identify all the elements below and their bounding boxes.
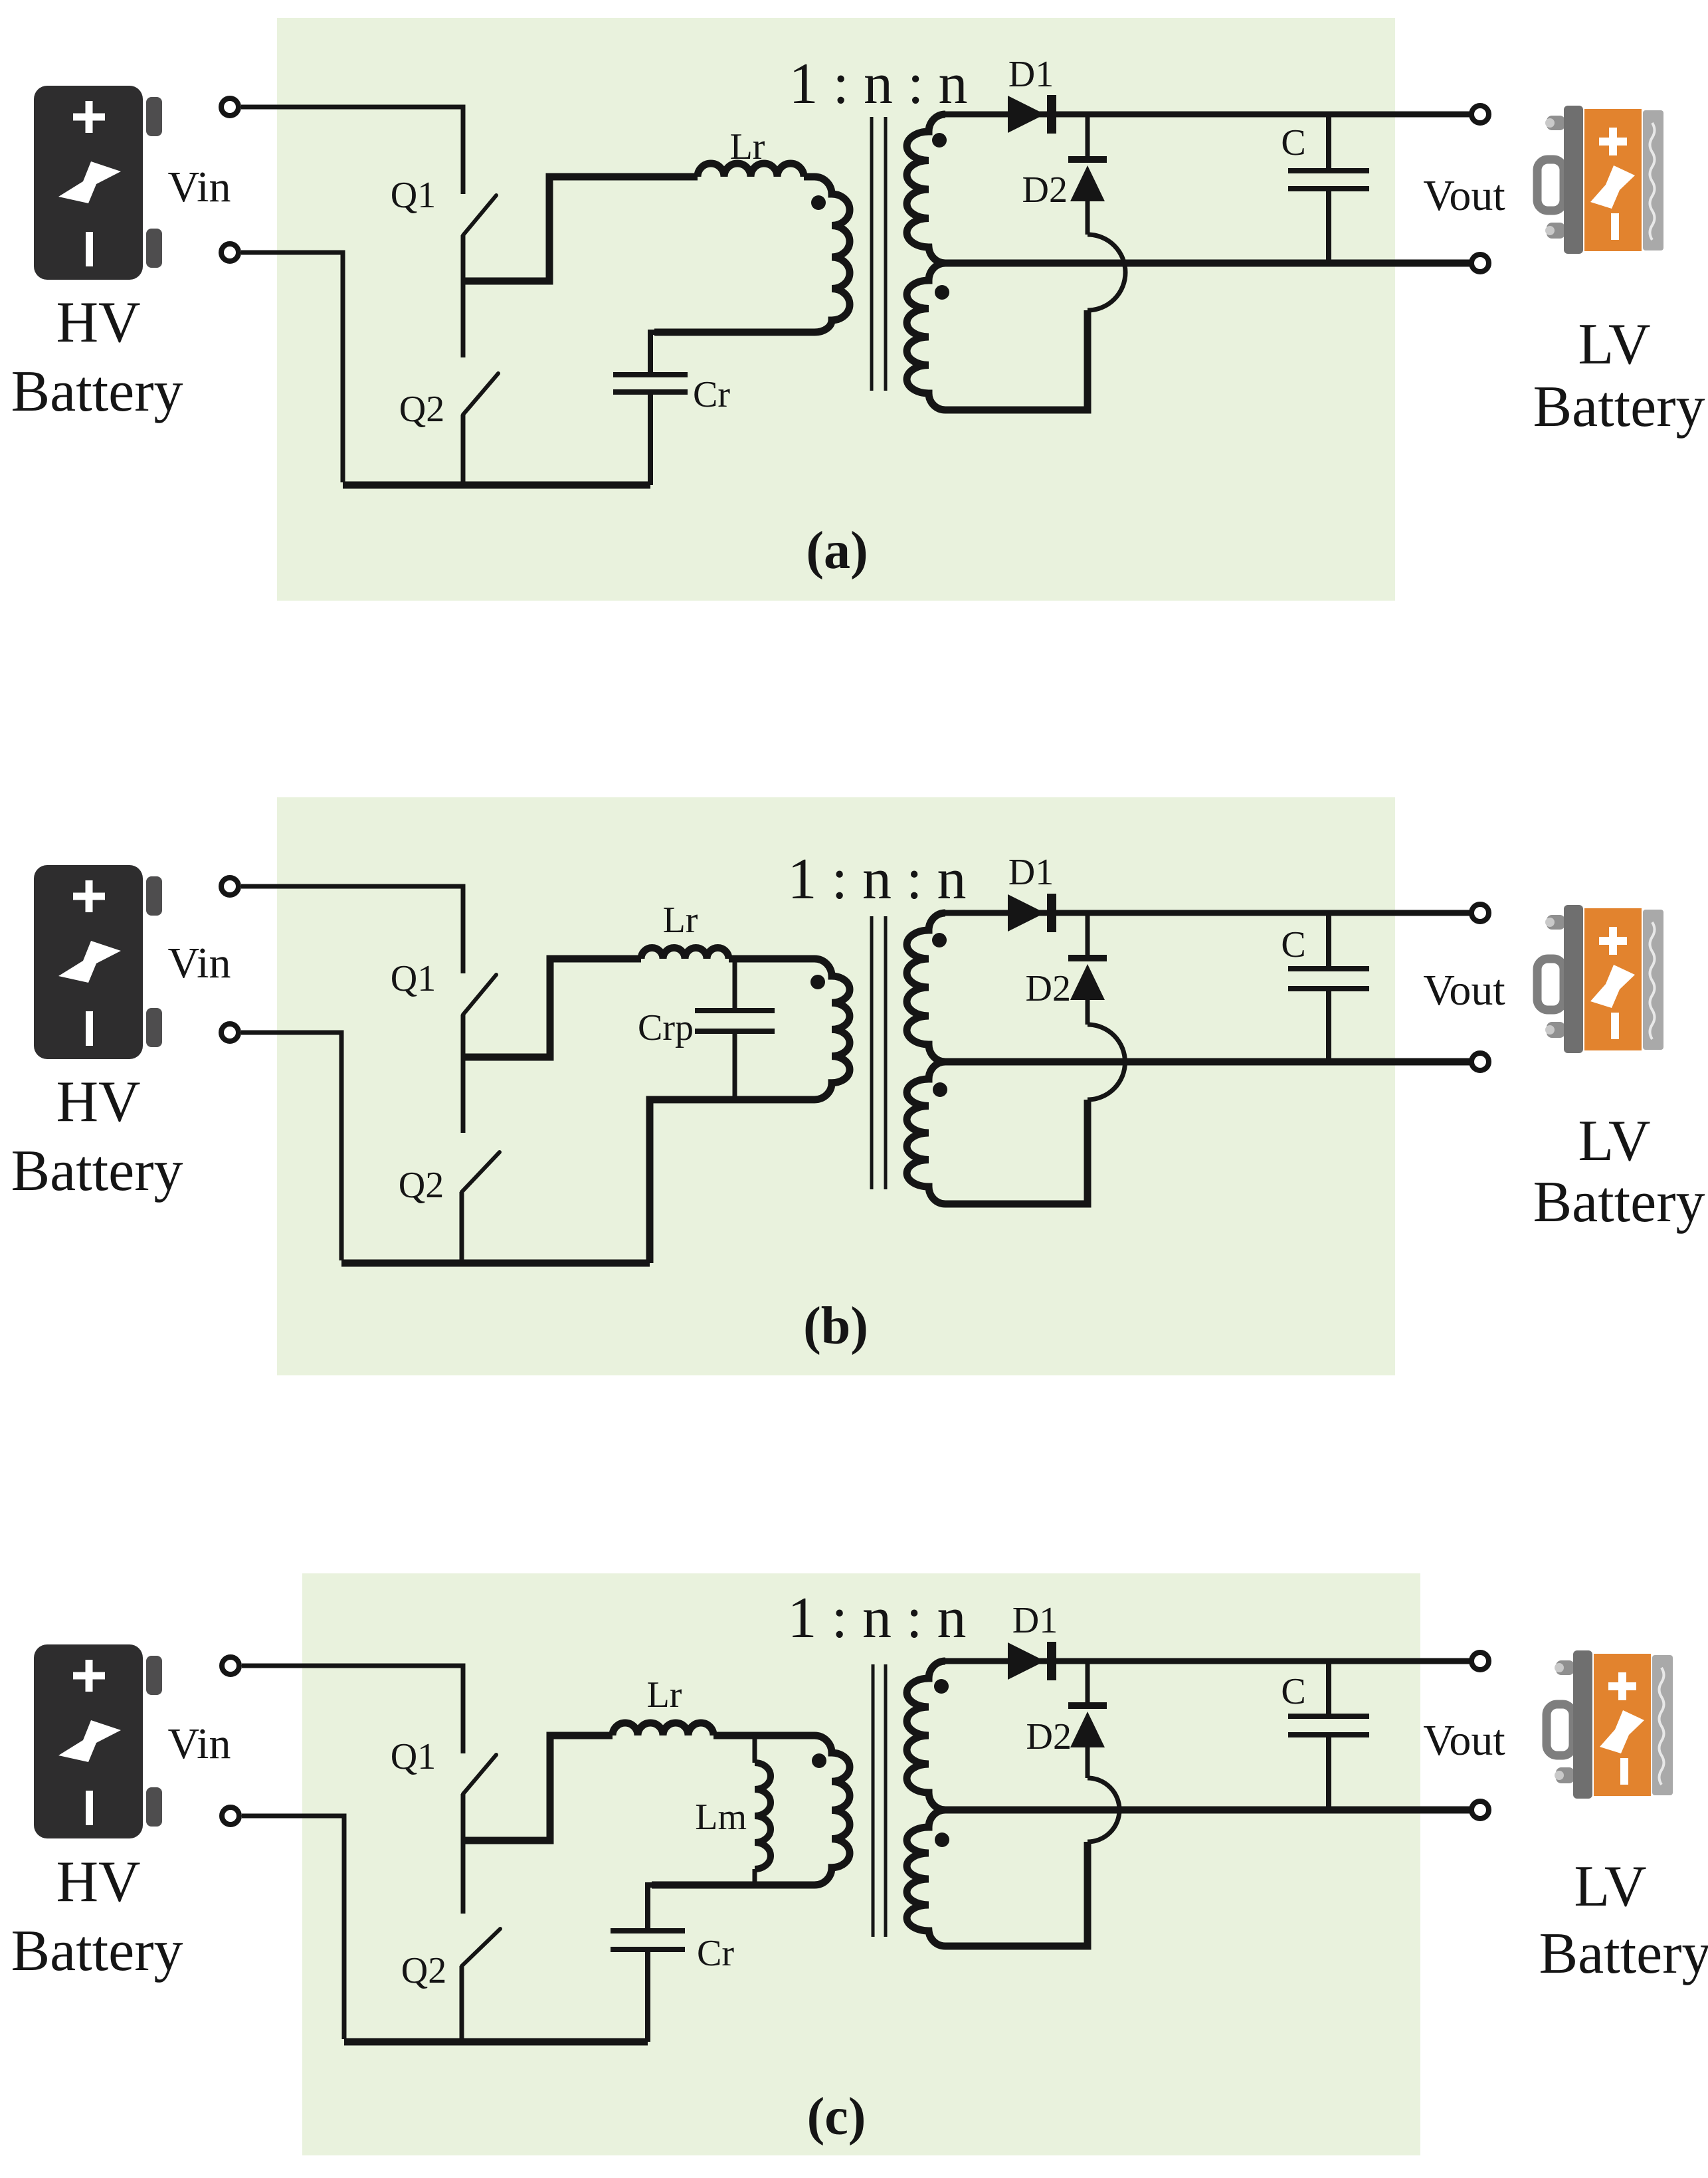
svg-text:LV: LV bbox=[1578, 1109, 1650, 1173]
wire half-bridge midpoint (b) bbox=[463, 959, 641, 1057]
svg-text:HV: HV bbox=[56, 1850, 140, 1914]
diode D1 (b) bbox=[1008, 894, 1045, 932]
svg-text:Battery: Battery bbox=[11, 359, 183, 424]
svg-text:Vin: Vin bbox=[167, 939, 231, 987]
diode D2 (a) bbox=[1068, 156, 1107, 163]
wire output top rail (b) bbox=[943, 910, 1480, 916]
svg-text:1 : n : n: 1 : n : n bbox=[789, 52, 968, 116]
wire D2 branch (b) bbox=[1086, 913, 1090, 955]
svg-text:Vout: Vout bbox=[1423, 966, 1505, 1015]
switch Q2 (b) bbox=[462, 1152, 500, 1192]
wire output top rail (c) bbox=[943, 1658, 1480, 1664]
input terminal bottom (c) bbox=[222, 1807, 239, 1825]
transformer core (c) bbox=[873, 1664, 886, 1937]
svg-text:(b): (b) bbox=[803, 1297, 868, 1355]
wire D2 to hop (a) bbox=[1086, 201, 1090, 235]
transformer secondary dot 2 (b) bbox=[933, 1082, 947, 1097]
transformer secondary dot 1 (c) bbox=[934, 1679, 949, 1694]
HV battery icon (a) bbox=[34, 86, 162, 280]
svg-text:D1: D1 bbox=[1008, 852, 1054, 893]
capacitor Cr (c) bbox=[611, 1931, 685, 1949]
wire primary bottom (b) bbox=[650, 1100, 738, 1263]
wire bottom rail (a) bbox=[343, 482, 650, 489]
inductor Lr (b) bbox=[641, 948, 729, 959]
svg-text:1 : n : n: 1 : n : n bbox=[788, 1586, 967, 1650]
wire secondary bottom (c) bbox=[945, 1842, 1088, 1946]
svg-text:Vin: Vin bbox=[167, 163, 231, 211]
svg-text:C: C bbox=[1281, 122, 1305, 163]
wire hop over center tap (b) bbox=[1088, 1025, 1125, 1100]
svg-text:Battery: Battery bbox=[1539, 1922, 1708, 1986]
transformer secondary dot 2 (c) bbox=[935, 1832, 949, 1847]
diode D2 (c) bbox=[1068, 1702, 1107, 1709]
transformer secondary winding 2 (a) bbox=[907, 263, 945, 410]
transformer secondary dot 1 (a) bbox=[932, 133, 947, 148]
svg-text:Q1: Q1 bbox=[391, 1736, 436, 1777]
wire input bottom (c) bbox=[242, 1816, 344, 2039]
transformer secondary winding 1 (a) bbox=[907, 114, 945, 263]
wire input top (c) bbox=[242, 1666, 463, 1753]
svg-text:(a): (a) bbox=[806, 522, 868, 580]
diode D1 (a) bbox=[1008, 96, 1045, 133]
diode D1 (c) bbox=[1008, 1642, 1045, 1680]
inductor Lm (c) bbox=[753, 1735, 757, 1763]
switch Q2 (c) bbox=[462, 1929, 500, 1966]
wire input top (b) bbox=[241, 886, 463, 973]
inductor Lr (c) bbox=[613, 1723, 713, 1735]
svg-text:Q1: Q1 bbox=[391, 175, 436, 216]
wire input bottom (b) bbox=[241, 1033, 341, 1260]
switch Q1 (b) bbox=[463, 975, 496, 1015]
wire D2 to hop (c) bbox=[1086, 1747, 1090, 1778]
capacitor C (c) bbox=[1326, 1661, 1331, 1714]
switch Q1 (a) bbox=[463, 195, 496, 235]
label HV Battery (b) bbox=[11, 1070, 183, 1203]
output terminal top (b) bbox=[1471, 904, 1489, 922]
svg-text:D1: D1 bbox=[1008, 54, 1054, 95]
wire output top rail (a) bbox=[943, 112, 1480, 118]
wire half-bridge midpoint (a) bbox=[463, 177, 698, 281]
wire D2 to hop (b) bbox=[1086, 1000, 1090, 1025]
label LV Battery (b) bbox=[1533, 1109, 1705, 1235]
svg-text:D2: D2 bbox=[1026, 1716, 1072, 1757]
capacitor C (b) bbox=[1326, 913, 1331, 966]
wire bottom rail (b) bbox=[341, 1260, 650, 1267]
svg-text:Vin: Vin bbox=[167, 1720, 231, 1768]
capacitor Cr (a) bbox=[613, 375, 688, 392]
svg-text:D2: D2 bbox=[1026, 968, 1071, 1009]
LV battery icon (a) bbox=[1537, 106, 1663, 254]
svg-text:Q1: Q1 bbox=[391, 958, 436, 999]
capacitor Crp (b) bbox=[695, 1011, 775, 1031]
svg-text:HV: HV bbox=[56, 1070, 140, 1134]
wire input bottom (a) bbox=[241, 252, 343, 482]
svg-text:Lm: Lm bbox=[695, 1797, 747, 1838]
input terminal bottom (a) bbox=[221, 244, 238, 261]
panel (c) background bbox=[302, 1573, 1420, 2155]
transformer core (b) bbox=[872, 916, 886, 1189]
transformer secondary winding 1 (c) bbox=[907, 1661, 945, 1810]
transformer secondary winding 2 (c) bbox=[907, 1810, 945, 1946]
wire bottom rail (c) bbox=[344, 2038, 648, 2046]
wire output bottom rail / center tap (c) bbox=[945, 1807, 1480, 1814]
svg-text:Cr: Cr bbox=[693, 374, 730, 415]
wire D2 branch (c) bbox=[1086, 1661, 1090, 1702]
svg-text:Battery: Battery bbox=[1533, 1170, 1705, 1235]
transformer primary winding (a) bbox=[654, 177, 850, 332]
wire output bottom rail / center tap (b) bbox=[945, 1058, 1480, 1066]
input terminal bottom (b) bbox=[221, 1024, 238, 1041]
svg-text:Cr: Cr bbox=[697, 1933, 734, 1974]
svg-text:HV: HV bbox=[56, 290, 140, 355]
svg-text:1 : n : n: 1 : n : n bbox=[788, 847, 967, 912]
svg-text:Lr: Lr bbox=[647, 1674, 682, 1716]
wire half-bridge midpoint (c) bbox=[463, 1735, 613, 1840]
input terminal top (c) bbox=[222, 1657, 239, 1674]
svg-text:Lr: Lr bbox=[730, 126, 765, 167]
capacitor C (a) bbox=[1326, 114, 1331, 168]
svg-text:Battery: Battery bbox=[1533, 375, 1705, 439]
svg-text:Vout: Vout bbox=[1423, 171, 1505, 220]
wire input top (a) bbox=[241, 107, 463, 194]
svg-text:C: C bbox=[1281, 924, 1305, 965]
transformer secondary winding 1 (b) bbox=[907, 913, 945, 1062]
LV battery icon (b) bbox=[1537, 905, 1663, 1053]
label LV Battery (a) bbox=[1533, 312, 1705, 439]
svg-text:(c): (c) bbox=[807, 2088, 866, 2146]
svg-text:Q2: Q2 bbox=[399, 389, 444, 430]
svg-text:D1: D1 bbox=[1012, 1600, 1058, 1641]
diode D2 (b) bbox=[1068, 955, 1107, 961]
LV battery icon (c) bbox=[1547, 1650, 1673, 1799]
panel (b) background bbox=[277, 797, 1395, 1375]
output terminal top (a) bbox=[1471, 106, 1489, 123]
panel (a) background bbox=[277, 18, 1395, 601]
transformer secondary winding 2 (b) bbox=[907, 1062, 945, 1204]
wire Cr top lead (c) bbox=[648, 1885, 652, 1928]
input terminal top (b) bbox=[221, 878, 238, 895]
svg-text:Battery: Battery bbox=[11, 1919, 183, 1983]
wire hop over center tap (a) bbox=[1088, 235, 1125, 310]
output terminal bottom (c) bbox=[1471, 1801, 1489, 1819]
transformer secondary dot 1 (b) bbox=[932, 933, 947, 947]
svg-text:Crp: Crp bbox=[638, 1007, 694, 1048]
wire hop over center tap (c) bbox=[1088, 1778, 1119, 1842]
wire Cr top lead (a) bbox=[650, 332, 654, 372]
label HV Battery (c) bbox=[11, 1850, 183, 1983]
transformer primary winding (c) bbox=[652, 1735, 850, 1885]
transformer primary dot (b) bbox=[810, 975, 825, 989]
HV battery icon (b) bbox=[34, 865, 162, 1059]
svg-text:D2: D2 bbox=[1022, 169, 1068, 211]
switch Q2 (a) bbox=[463, 373, 498, 415]
HV battery icon (c) bbox=[34, 1644, 162, 1838]
svg-text:Lr: Lr bbox=[663, 900, 698, 941]
svg-text:Q2: Q2 bbox=[401, 1950, 446, 1991]
svg-text:LV: LV bbox=[1574, 1854, 1646, 1919]
svg-text:Battery: Battery bbox=[11, 1139, 183, 1203]
output terminal bottom (b) bbox=[1471, 1053, 1489, 1070]
label HV Battery (a) bbox=[11, 290, 183, 424]
output terminal bottom (a) bbox=[1471, 254, 1489, 272]
transformer primary dot (c) bbox=[812, 1753, 826, 1768]
inductor Lr (a) bbox=[698, 163, 804, 177]
transformer core (a) bbox=[872, 117, 886, 391]
svg-text:Vout: Vout bbox=[1423, 1716, 1505, 1765]
svg-text:LV: LV bbox=[1578, 312, 1650, 377]
wire Crp top lead (b) bbox=[733, 959, 737, 1009]
transformer secondary dot 2 (a) bbox=[935, 285, 949, 300]
output terminal top (c) bbox=[1471, 1652, 1489, 1670]
transformer primary dot (a) bbox=[811, 195, 826, 210]
wire D2 branch (a) bbox=[1086, 114, 1090, 156]
wire secondary bottom (b) bbox=[945, 1100, 1088, 1204]
wire output bottom rail / center tap (a) bbox=[945, 260, 1480, 267]
svg-text:C: C bbox=[1281, 1671, 1305, 1712]
input terminal top (a) bbox=[221, 98, 238, 116]
wire secondary bottom (a) bbox=[945, 310, 1088, 410]
label LV Battery (c) bbox=[1539, 1854, 1708, 1986]
svg-text:Q2: Q2 bbox=[399, 1165, 444, 1206]
transformer primary winding (b) bbox=[729, 959, 850, 1100]
switch Q1 (c) bbox=[463, 1755, 496, 1794]
